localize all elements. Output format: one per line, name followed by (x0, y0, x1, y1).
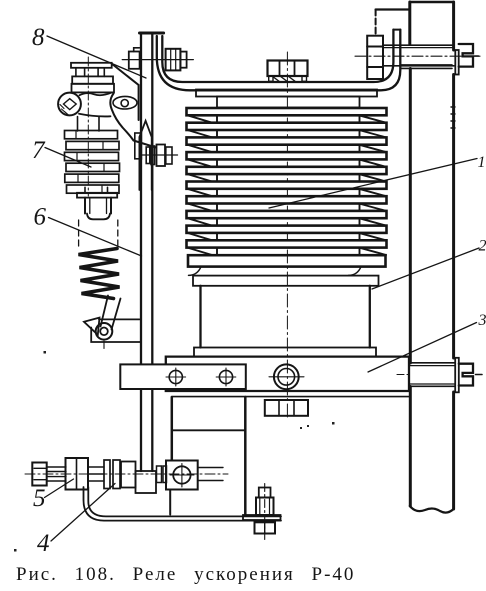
leader 6 (49, 218, 142, 257)
top terminal wire (376, 10, 410, 34)
bar screw holes (166, 368, 236, 386)
bottom terminal bolt (243, 484, 281, 540)
adjusting nut stack (71, 57, 114, 196)
specks (14, 351, 335, 552)
pivot bracket (91, 319, 140, 342)
moving contact blade (139, 121, 151, 190)
magnet frame (170, 397, 245, 515)
pivot arm with knob (58, 93, 111, 117)
svg-text:4: 4 (37, 530, 50, 557)
strip top bolt (contact adjuster) (122, 48, 193, 71)
mounting bar (120, 357, 409, 397)
svg-text:7: 7 (32, 137, 46, 164)
right mounting plate (410, 2, 455, 513)
leader 5 (45, 479, 74, 498)
wire to bottom terminal (84, 487, 282, 521)
spring 6 zigzag (79, 249, 120, 299)
hex nut under bar (265, 400, 308, 416)
armature lever (110, 64, 156, 148)
right bar bolt (397, 358, 482, 393)
leader 1 (269, 159, 477, 209)
leader 3 (368, 323, 477, 373)
spring 7 coils (65, 131, 120, 194)
mid strip bolt (140, 145, 178, 167)
leader 8 (47, 36, 146, 78)
svg-text:6: 6 (34, 204, 47, 231)
leader 2 (372, 248, 479, 289)
armature strip (140, 33, 164, 471)
leader 4 (51, 484, 115, 542)
lever pivot (84, 318, 112, 349)
coil bottom flange (188, 255, 386, 286)
spring link (101, 296, 121, 330)
top terminal bolt (355, 44, 481, 75)
bar center bolt (269, 364, 304, 389)
svg-text:8: 8 (32, 24, 45, 51)
caption (16, 564, 486, 586)
contact block on strip (135, 133, 142, 159)
svg-text:3: 3 (478, 312, 486, 329)
coil spool body (194, 286, 376, 357)
coil fins (ribbon turns) (187, 108, 387, 255)
spring screw end (77, 187, 118, 250)
svg-text:1: 1 (478, 154, 486, 171)
contact strap (bent strip to terminal) (157, 30, 400, 91)
coil top plates (196, 90, 377, 108)
leader 7 (45, 148, 91, 168)
top terminal hex block (367, 36, 383, 79)
coil top nut (268, 61, 308, 83)
svg-text:2: 2 (479, 238, 486, 255)
svg-text:5: 5 (33, 485, 46, 512)
coil core edges (217, 108, 360, 255)
adjusting screw assembly (25, 458, 228, 493)
coil axis centerline (286, 52, 288, 420)
